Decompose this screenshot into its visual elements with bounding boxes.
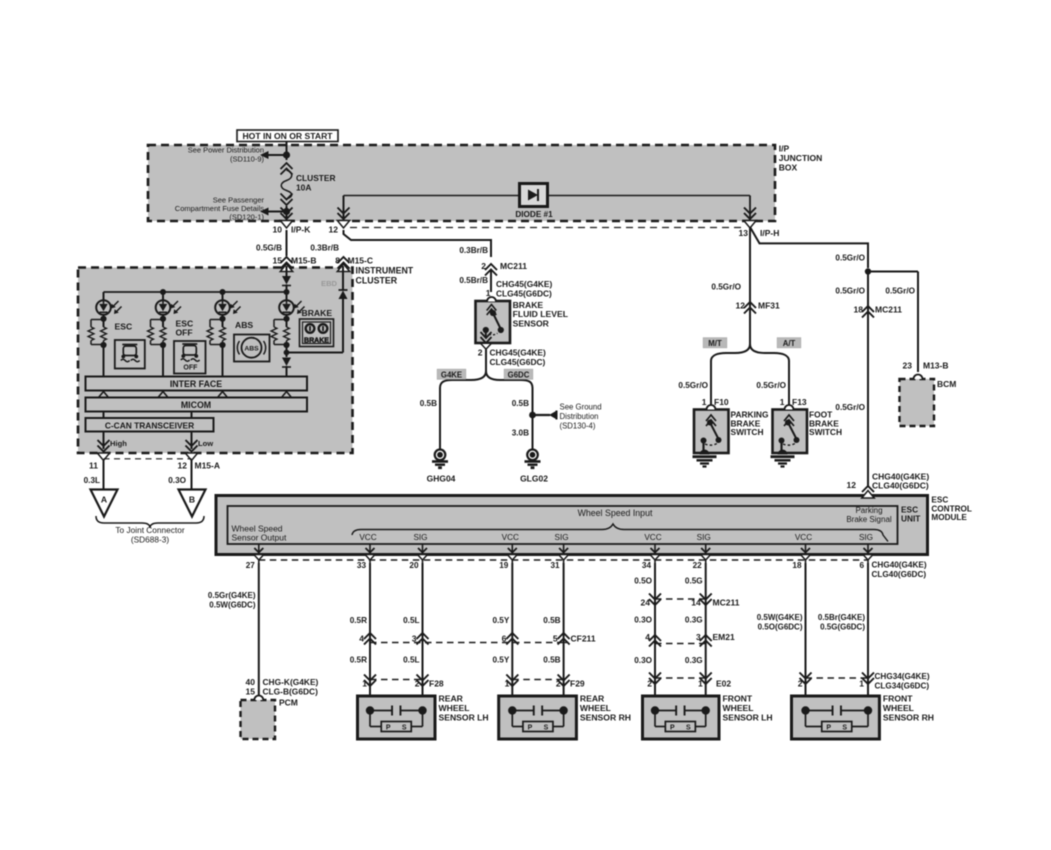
svg-text:M15-C: M15-C [348,256,374,266]
svg-text:11: 11 [89,460,98,470]
svg-text:CONTROL: CONTROL [931,504,971,513]
svg-text:SIG: SIG [555,533,569,542]
svg-text:34: 34 [642,561,652,570]
svg-text:0.3Br/B: 0.3Br/B [459,246,488,255]
svg-text:0.5Gr/O: 0.5Gr/O [678,381,708,390]
svg-text:ABS: ABS [244,346,259,353]
svg-text:EBD: EBD [321,279,338,288]
svg-text:G6DC: G6DC [508,371,530,380]
svg-text:High: High [110,439,127,448]
svg-text:15: 15 [273,256,283,266]
svg-text:0.5R: 0.5R [350,616,367,625]
svg-text:0.5B: 0.5B [543,656,560,665]
svg-text:P: P [386,725,391,732]
svg-text:0.5G/B: 0.5G/B [256,244,282,253]
svg-text:F28: F28 [429,679,444,689]
svg-text:B: B [189,495,195,505]
svg-text:SENSOR RH: SENSOR RH [883,713,934,723]
svg-text:12: 12 [178,460,188,470]
svg-text:0.5B: 0.5B [420,399,437,408]
svg-text:12: 12 [329,225,339,235]
svg-text:ABS: ABS [235,320,253,330]
svg-text:E02: E02 [716,679,731,689]
svg-text:0.5Gr/O: 0.5Gr/O [756,381,786,390]
svg-text:Sensor Output: Sensor Output [232,533,287,543]
svg-text:0.5B: 0.5B [512,399,529,408]
svg-text:M15-A: M15-A [195,460,221,470]
svg-text:0.5O(G6DC): 0.5O(G6DC) [758,623,803,632]
svg-text:8: 8 [335,256,340,266]
svg-text:0.5L: 0.5L [403,616,419,625]
svg-text:CHG34(G4KE): CHG34(G4KE) [875,672,930,681]
svg-text:0.5R: 0.5R [350,656,367,665]
svg-text:1: 1 [698,679,703,689]
svg-text:0.5Br(G4KE): 0.5Br(G4KE) [818,613,865,622]
svg-text:HOT IN ON OR START: HOT IN ON OR START [242,131,333,141]
svg-text:CLUSTER: CLUSTER [296,173,336,183]
svg-text:ESC: ESC [931,496,948,505]
svg-text:MICOM: MICOM [181,400,211,410]
svg-text:(SD688-3): (SD688-3) [131,534,170,544]
svg-text:INSTRUMENT: INSTRUMENT [356,266,414,276]
svg-text:WHEEL: WHEEL [883,703,914,713]
svg-text:BOX: BOX [779,162,798,172]
svg-text:18: 18 [854,305,864,315]
svg-text:1: 1 [505,679,510,689]
svg-text:14: 14 [691,598,701,608]
svg-text:VCC: VCC [795,533,812,542]
svg-text:(SD120-1): (SD120-1) [229,213,264,222]
svg-text:Brake Signal: Brake Signal [846,515,892,524]
svg-text:UNIT: UNIT [901,514,920,524]
svg-text:F29: F29 [570,679,585,689]
svg-text:M13-B: M13-B [923,361,949,371]
svg-text:FRONT: FRONT [723,694,753,704]
svg-text:SENSOR LH: SENSOR LH [723,713,773,723]
svg-text:0.5Gr/O: 0.5Gr/O [835,403,865,412]
svg-text:0.3G: 0.3G [685,656,703,665]
svg-text:A/T: A/T [783,339,796,348]
svg-text:CHG40(G4KE): CHG40(G4KE) [872,561,927,570]
svg-text:S: S [686,725,691,732]
svg-text:BRAKE: BRAKE [302,308,333,318]
svg-text:CLG34(G6DC): CLG34(G6DC) [875,682,930,691]
svg-text:C-CAN TRANSCEIVER: C-CAN TRANSCEIVER [105,421,194,431]
svg-text:0.5Gr(G4KE): 0.5Gr(G4KE) [208,591,256,600]
svg-text:P: P [528,725,533,732]
svg-text:S: S [842,725,847,732]
svg-text:0.5Gr/O: 0.5Gr/O [885,287,915,296]
svg-text:13: 13 [739,228,749,238]
svg-text:1: 1 [780,397,785,407]
svg-text:CLG-B(G6DC): CLG-B(G6DC) [263,686,319,696]
svg-text:24: 24 [641,598,651,608]
svg-text:SIG: SIG [859,533,873,542]
svg-text:33: 33 [357,561,367,570]
svg-text:WHEEL: WHEEL [439,703,470,713]
svg-text:P: P [826,725,831,732]
svg-text:S: S [402,725,407,732]
svg-text:DIODE #1: DIODE #1 [515,210,553,219]
svg-text:PCM: PCM [279,698,298,708]
svg-text:REAR: REAR [439,694,464,704]
svg-text:0.5O: 0.5O [634,577,652,586]
svg-text:0.3Br/B: 0.3Br/B [310,244,339,253]
svg-text:MC211: MC211 [713,598,740,608]
svg-text:6: 6 [859,561,864,570]
svg-text:F13: F13 [792,397,807,407]
svg-text:3: 3 [696,632,701,642]
svg-text:1: 1 [859,679,864,689]
svg-text:0.5Y: 0.5Y [492,616,509,625]
svg-text:0.5G: 0.5G [685,577,703,586]
svg-text:WHEEL: WHEEL [580,703,611,713]
svg-text:0.5Gr/O: 0.5Gr/O [835,254,865,263]
svg-text:CLG40(G6DC): CLG40(G6DC) [872,481,929,491]
svg-text:See Power Distribution: See Power Distribution [188,146,264,155]
svg-text:SWITCH: SWITCH [731,427,764,437]
svg-text:GHG04: GHG04 [427,474,456,484]
svg-text:4: 4 [359,634,364,644]
svg-text:23: 23 [903,361,913,371]
svg-text:18: 18 [792,561,802,570]
svg-text:1: 1 [702,397,707,407]
svg-text:VCC: VCC [644,533,661,542]
svg-text:(SD110-9): (SD110-9) [230,155,265,164]
svg-text:0.5Y: 0.5Y [492,656,509,665]
svg-text:To Joint Connector: To Joint Connector [115,525,184,535]
svg-text:FRONT: FRONT [883,694,913,704]
svg-text:BCM: BCM [937,379,956,389]
svg-text:P: P [670,725,675,732]
svg-text:0.5G(G6DC): 0.5G(G6DC) [820,623,865,632]
svg-text:Low: Low [198,439,213,448]
svg-text:I/P-H: I/P-H [760,228,779,238]
svg-text:MF31: MF31 [758,301,780,311]
svg-text:S: S [544,725,549,732]
svg-text:M/T: M/T [708,339,722,348]
svg-text:20: 20 [409,561,419,570]
svg-text:31: 31 [550,561,560,570]
svg-text:REAR: REAR [580,694,605,704]
svg-text:CLG45(G6DC): CLG45(G6DC) [496,288,552,298]
svg-text:27: 27 [246,561,256,570]
svg-text:1: 1 [362,679,367,689]
svg-text:0.3O: 0.3O [168,476,186,485]
svg-text:12: 12 [736,301,746,311]
svg-text:VCC: VCC [502,533,519,542]
svg-text:INTER FACE: INTER FACE [170,379,222,389]
svg-text:2: 2 [647,679,652,689]
svg-text:0.3O: 0.3O [634,656,652,665]
svg-text:CHG45(G4KE): CHG45(G4KE) [490,348,547,358]
svg-text:MC211: MC211 [500,261,527,271]
svg-text:MC211: MC211 [875,305,902,315]
svg-text:WHEEL: WHEEL [723,703,754,713]
svg-text:10A: 10A [296,183,311,193]
svg-text:SIG: SIG [697,533,711,542]
svg-text:SENSOR LH: SENSOR LH [439,713,489,723]
svg-text:0.5L: 0.5L [403,656,419,665]
svg-text:19: 19 [499,561,509,570]
svg-text:0.5B: 0.5B [543,616,560,625]
svg-text:10: 10 [273,225,283,235]
svg-text:A: A [101,495,107,505]
svg-text:See Ground: See Ground [560,403,602,412]
svg-text:F10: F10 [714,397,729,407]
svg-text:0.5Br/B: 0.5Br/B [459,276,488,285]
svg-text:OFF: OFF [183,365,198,372]
svg-text:BRAKE: BRAKE [304,338,329,345]
svg-text:0.3G: 0.3G [685,616,703,625]
svg-text:CF211: CF211 [571,634,596,644]
svg-text:0.5Gr/O: 0.5Gr/O [835,287,865,296]
svg-text:I/P: I/P [779,144,790,154]
svg-text:ESC: ESC [115,322,133,332]
svg-text:VCC: VCC [359,533,376,542]
svg-text:(SD130-4): (SD130-4) [560,421,596,430]
svg-text:SWITCH: SWITCH [809,427,842,437]
svg-text:15: 15 [246,686,256,696]
svg-text:OFF: OFF [176,328,193,338]
svg-text:I/P-K: I/P-K [291,225,311,235]
svg-text:MODULE: MODULE [931,513,967,522]
svg-text:0.5Gr/O: 0.5Gr/O [711,283,741,292]
svg-text:0.5W(G6DC): 0.5W(G6DC) [209,601,256,610]
svg-text:2: 2 [481,261,486,271]
svg-text:2: 2 [478,348,483,358]
svg-text:0.3L: 0.3L [84,476,100,485]
svg-text:EM21: EM21 [713,632,735,642]
svg-text:SENSOR RH: SENSOR RH [580,713,631,723]
svg-text:SENSOR: SENSOR [513,318,550,328]
svg-text:Wheel Speed Input: Wheel Speed Input [578,508,653,518]
svg-text:G4KE: G4KE [441,371,462,380]
svg-text:Parking: Parking [855,506,882,515]
svg-text:CLG45(G6DC): CLG45(G6DC) [490,357,546,367]
svg-text:2: 2 [798,679,803,689]
svg-text:0.5W(G4KE): 0.5W(G4KE) [757,613,803,622]
svg-text:12: 12 [847,480,857,490]
svg-text:GLG02: GLG02 [520,474,548,484]
svg-text:0.3O: 0.3O [634,616,652,625]
svg-text:22: 22 [693,561,703,570]
svg-text:CLG40(G6DC): CLG40(G6DC) [872,570,927,579]
svg-text:M15-B: M15-B [291,256,317,266]
svg-text:3.0B: 3.0B [512,429,529,438]
svg-text:SIG: SIG [413,533,427,542]
svg-text:4: 4 [645,632,650,642]
svg-text:CLUSTER: CLUSTER [356,276,398,286]
svg-text:Distribution: Distribution [560,412,599,421]
